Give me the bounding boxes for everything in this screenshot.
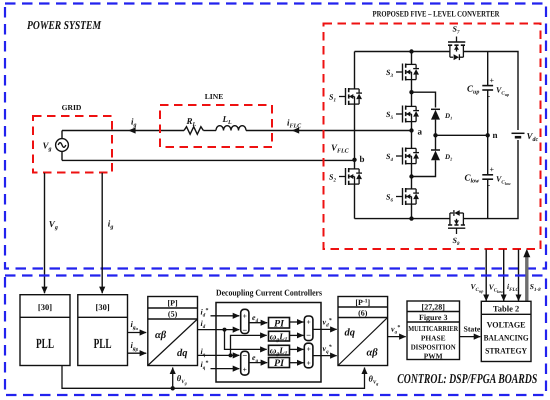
wire D2 bottom to node(S4/S6): [412, 160, 436, 176]
transistor S6: [396, 188, 419, 205]
node S4/S6 junction: [409, 174, 413, 178]
diode D2: [431, 135, 440, 160]
svg-text:+: +: [306, 358, 310, 367]
wire S1-8 gate bus (thick gray, arrow up): [525, 257, 528, 302]
line box (red dashed): [160, 105, 272, 147]
svg-text:Decoupling Current Controllers: Decoupling Current Controllers: [216, 288, 322, 298]
wire PI2 to sum D: [290, 362, 304, 364]
wire inductor to node a: [246, 130, 412, 132]
wire v_q_ref to T2: [313, 355, 337, 357]
wire e_q to PI2: [249, 362, 267, 364]
transistor S1: [339, 88, 362, 105]
svg-text:αβ: αβ: [155, 330, 167, 341]
summing junction A: [241, 309, 249, 333]
svg-text:VOLTAGE: VOLTAGE: [487, 321, 526, 330]
wire wL2 to sum D: [290, 348, 304, 350]
svg-text:(5): (5): [168, 310, 178, 319]
svg-text:a: a: [418, 127, 423, 137]
wire i_d: [198, 329, 240, 331]
resistor RL: [184, 127, 203, 135]
wire State to Table2: [460, 336, 481, 338]
svg-text:+: +: [243, 312, 247, 321]
capacitor Clow: [482, 175, 493, 179]
svg-text:MULTICARRIER: MULTICARRIER: [408, 324, 459, 333]
battery Vdc: [512, 133, 525, 137]
wire node(S3/S5) to D1 top: [412, 92, 436, 107]
wire iFLC sense down: [518, 250, 520, 301]
node a: [409, 128, 413, 132]
svg-text:POWER SYSTEM: POWER SYSTEM: [27, 18, 101, 32]
svg-text:PROPOSED FIVE – LEVEL CONVERTE: PROPOSED FIVE – LEVEL CONVERTER: [373, 10, 501, 19]
svg-text:STRATEGY: STRATEGY: [485, 347, 527, 356]
svg-text:−: −: [242, 350, 247, 360]
PWM block: [407, 301, 460, 360]
Table 2 block: [481, 301, 531, 361]
svg-text:[P]: [P]: [167, 299, 178, 308]
wire i_q: [198, 354, 240, 356]
wire middle column top: [411, 52, 413, 131]
arrow i_g (pointing left): [128, 127, 135, 133]
node i_d branch: [223, 328, 227, 332]
svg-text:(6): (6): [358, 309, 368, 318]
svg-text:State: State: [464, 325, 481, 334]
wire i_g_alpha PLL2 to transform: [128, 332, 147, 334]
svg-text:−: −: [306, 330, 311, 340]
PLL block 2: [78, 295, 128, 366]
node top rail / S3: [409, 49, 413, 53]
svg-text:dq: dq: [345, 328, 356, 339]
wire VCup sense down: [485, 250, 487, 301]
wire ig sense down to PLL2: [101, 173, 103, 293]
node S3/S5 junction: [409, 90, 413, 94]
transistor S7 (on top rail): [448, 37, 465, 61]
svg-text:LINE: LINE: [205, 92, 224, 101]
wire: source bottom to node b (y=160.4): [62, 159, 355, 161]
wire Cup to n: [487, 90, 489, 175]
wire wL1 to sum C: [290, 334, 304, 336]
svg-text:-: -: [488, 92, 491, 101]
svg-text:[27,28]: [27,28]: [422, 302, 446, 311]
wire i_q to wL1: [231, 335, 267, 355]
voltage source Vg: [56, 131, 69, 161]
svg-text:n: n: [493, 130, 498, 140]
transistor S2: [339, 168, 362, 185]
node n: [486, 133, 490, 137]
theta feedback wire: [62, 366, 365, 389]
transistor S8 (on bottom rail): [448, 210, 465, 234]
capacitor Cup: [482, 86, 493, 90]
PI block 2: [269, 358, 290, 368]
summing junction C: [304, 316, 313, 341]
wire v_d_ref to T2: [313, 328, 337, 330]
wgLL block 1: [269, 331, 290, 341]
wire top rail: [355, 52, 519, 131]
decoupling controllers box: [216, 303, 321, 383]
svg-text:GRID: GRID: [62, 103, 82, 112]
svg-text:+: +: [306, 318, 310, 327]
summing junction B: [241, 351, 249, 375]
wire i_g_beta PLL2 to transform: [128, 352, 147, 354]
wire middle column bottom: [411, 131, 413, 219]
summing junction D: [304, 343, 313, 368]
node bottom rail: [409, 216, 413, 220]
node b: [352, 158, 356, 162]
diode D1: [431, 109, 440, 135]
grid box (red dashed): [33, 116, 112, 173]
transistor S5: [396, 106, 419, 123]
wire PI1 to sum C: [290, 321, 304, 323]
wire left column: [354, 52, 356, 219]
svg-text:-: -: [488, 181, 491, 190]
node D junction: [433, 133, 437, 137]
wire D junction to n: [436, 134, 488, 136]
PLL block 1: [20, 295, 70, 366]
power system blue dashed border: [5, 4, 546, 269]
svg-text:BALANCING: BALANCING: [484, 334, 529, 343]
transistor S4: [396, 148, 419, 165]
control blue dashed border: [5, 276, 546, 396]
PI block 1: [269, 318, 290, 329]
wire i_d_ref: [211, 315, 240, 317]
wire capacitor column upper: [487, 52, 489, 86]
svg-text:Table 2: Table 2: [493, 303, 519, 313]
wire Vg sense down to PLL1: [44, 173, 46, 293]
svg-text:αβ: αβ: [367, 348, 379, 359]
wire theta to T1: [172, 368, 174, 389]
svg-text:PI: PI: [274, 318, 285, 329]
svg-text:CONTROL: DSP/FPGA BOARDS: CONTROL: DSP/FPGA BOARDS: [397, 371, 537, 386]
svg-text:DISPOSITION: DISPOSITION: [411, 343, 457, 352]
wgLL block 2: [269, 345, 290, 355]
svg-text:+: +: [490, 76, 495, 85]
converter red dashed box: [324, 24, 541, 250]
svg-text:dq: dq: [177, 348, 188, 359]
svg-text:[30]: [30]: [96, 302, 110, 312]
wire v_a_ref to PWM: [388, 336, 406, 338]
svg-text:b: b: [360, 154, 365, 164]
wire i_q_ref: [211, 368, 240, 370]
svg-text:PLL: PLL: [94, 337, 112, 352]
wire e_d to PI1: [249, 322, 267, 324]
transform block T2 dq to alpha-beta: [338, 297, 388, 366]
inductor LL: [216, 126, 246, 131]
svg-text:+: +: [243, 365, 247, 374]
svg-text:Figure 3: Figure 3: [419, 313, 448, 322]
wire VClow sense down: [503, 250, 505, 301]
wire bottom rail: [355, 140, 519, 219]
wire resistor to inductor: [203, 130, 216, 132]
node theta branch: [171, 386, 175, 390]
svg-text:+: +: [306, 345, 310, 354]
wire Clow to bottom rail: [487, 179, 489, 218]
svg-text:PI: PI: [274, 358, 285, 369]
node i_q branch: [229, 353, 233, 357]
arrow i_FLC (pointing left): [292, 127, 299, 133]
svg-text:PLL: PLL: [36, 337, 54, 352]
svg-text:PWM: PWM: [424, 351, 443, 360]
svg-text:+: +: [490, 165, 495, 174]
svg-text:−: −: [242, 325, 247, 335]
wire: source top to resistor (y=130.5): [62, 130, 184, 132]
transform block T1 alpha-beta to dq: [148, 297, 198, 366]
wire i_d to wL2: [225, 330, 267, 350]
transistor S3: [396, 64, 419, 81]
svg-text:PHASE: PHASE: [421, 333, 446, 342]
svg-text:[30]: [30]: [38, 302, 52, 312]
